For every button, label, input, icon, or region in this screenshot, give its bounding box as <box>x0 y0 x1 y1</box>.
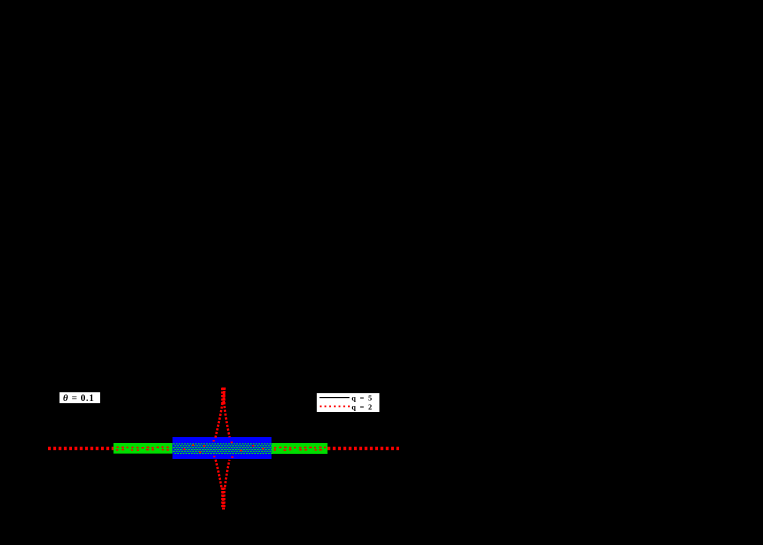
red dotted marks inside left green bar <box>116 446 169 451</box>
left green bar <box>114 443 173 454</box>
theta = 0.1 label box <box>59 392 101 404</box>
q=2 lower spike right branch <box>225 460 230 489</box>
svg-text:q = 2: q = 2 <box>352 403 374 412</box>
legend box <box>316 393 380 413</box>
red specks inside hatch band <box>183 445 264 454</box>
wire: q=2 red dotted baseline left segment <box>48 447 115 450</box>
q=2 lower spike merged column <box>221 488 225 509</box>
green-on-blue hatch band <box>173 443 273 454</box>
q=2 upper spike left branch <box>215 404 222 438</box>
right green bar <box>272 443 328 454</box>
red dotted marks inside right green bar <box>274 447 326 451</box>
legend q=2 sample dotted line <box>320 405 350 407</box>
legend q=5 sample line <box>320 397 350 399</box>
q=2 upper spike apex dash <box>221 388 225 390</box>
svg-text:q = 5: q = 5 <box>352 393 374 402</box>
q=2 lower spike left branch <box>216 460 222 489</box>
q=2 upper spike right branch <box>224 404 229 438</box>
wire: q=2 red dotted baseline right segment <box>328 447 400 450</box>
red specks at blue box edges near spike <box>213 440 215 442</box>
blue barrier box <box>173 437 272 459</box>
q=2 upper spike merged column <box>221 388 225 405</box>
q=2 lower spike tip dash <box>222 508 225 510</box>
svg-text:θ = 0.1: θ = 0.1 <box>63 393 94 404</box>
